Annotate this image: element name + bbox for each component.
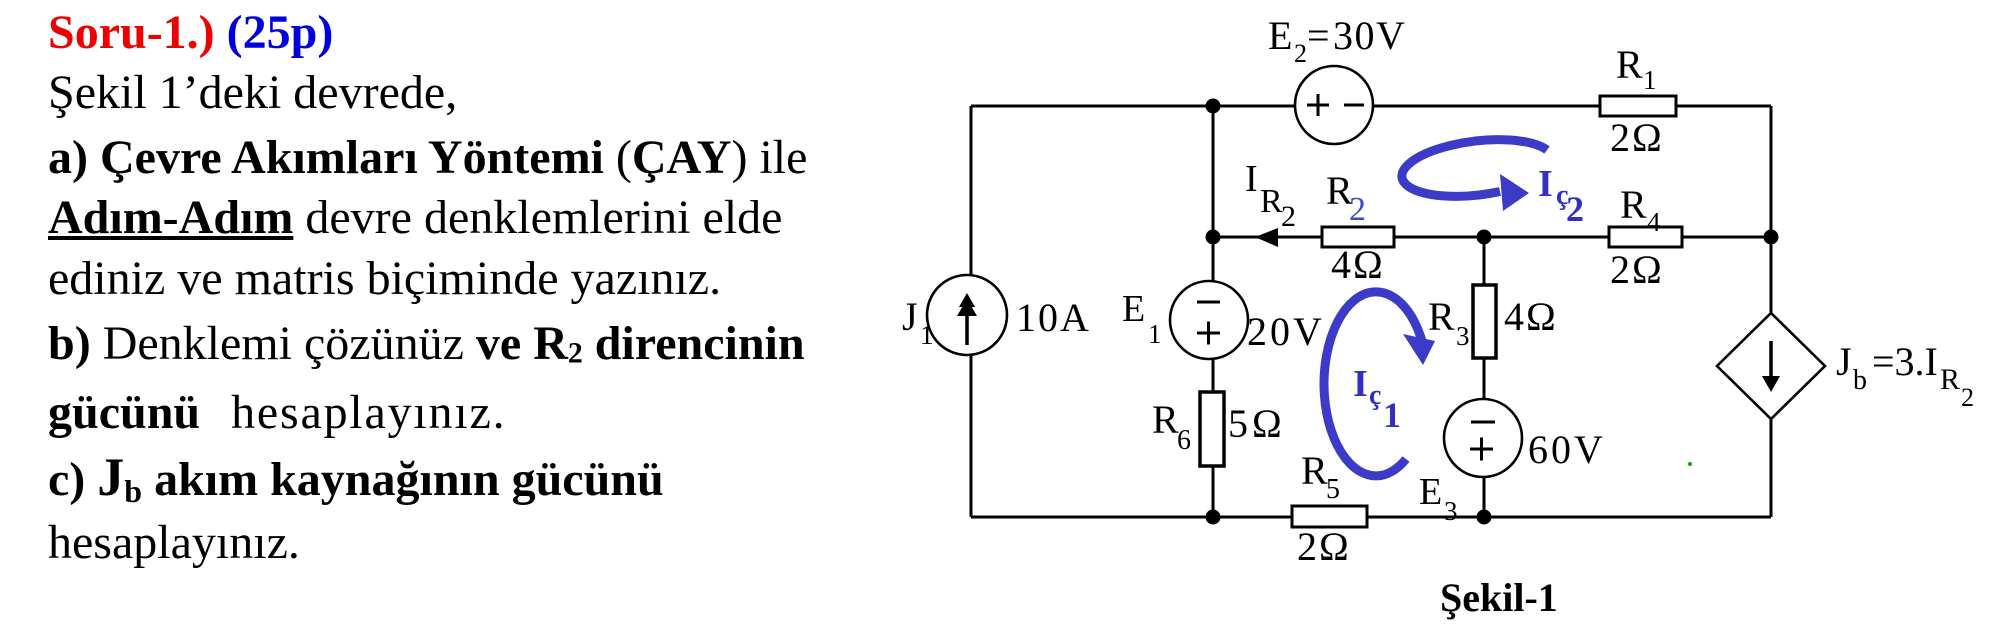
wire top (node A to node B) — [971, 105, 1771, 108]
label IR2 — [1245, 158, 1296, 233]
wire left branch — [970, 106, 973, 517]
wire from top node to middle node — [1212, 106, 1215, 237]
svg-text:Şekil-1: Şekil-1 — [1440, 575, 1558, 620]
wire bottom — [971, 516, 1771, 519]
label E1 — [1122, 288, 1162, 349]
svg-text:R: R — [1428, 294, 1455, 339]
svg-text:R: R — [1616, 42, 1643, 87]
voltage source E2 — [1295, 66, 1373, 144]
node dot top — [1206, 99, 1221, 114]
label J1 — [902, 294, 934, 350]
label E3 — [1419, 471, 1458, 526]
svg-text:30V: 30V — [1333, 13, 1406, 58]
svg-text:b: b — [1853, 365, 1867, 396]
resistor R3 — [1473, 285, 1496, 358]
node dot bottom-left — [1206, 510, 1221, 525]
voltage source E1 — [1170, 281, 1248, 359]
svg-text:=: = — [1307, 13, 1330, 58]
wire R3/E3 branch — [1483, 237, 1486, 517]
svg-text:J: J — [902, 294, 918, 339]
svg-text:I: I — [1245, 158, 1258, 200]
svg-text:I: I — [1353, 363, 1368, 405]
wire right branch — [1770, 106, 1773, 517]
svg-text:R: R — [1620, 182, 1647, 227]
svg-text:20V: 20V — [1247, 309, 1325, 354]
svg-text:3: 3 — [1456, 321, 1470, 351]
node dot middle-left — [1206, 230, 1221, 245]
label R3 — [1428, 294, 1470, 351]
node dot middle-center — [1477, 230, 1492, 245]
svg-text:4: 4 — [1647, 207, 1661, 237]
svg-text:I: I — [1538, 163, 1553, 205]
svg-text:R: R — [1152, 397, 1179, 442]
wire E1/R6 branch — [1212, 237, 1215, 517]
svg-text:1: 1 — [1148, 319, 1162, 349]
svg-text:E: E — [1419, 471, 1442, 513]
node dot bottom-center — [1477, 510, 1492, 525]
label Ic2 — [1538, 163, 1584, 229]
svg-text:3: 3 — [1444, 496, 1458, 526]
svg-text:6: 6 — [1177, 425, 1191, 456]
label R5 — [1301, 448, 1340, 505]
resistor R6 — [1200, 392, 1224, 466]
resistor R4 — [1609, 227, 1682, 247]
svg-text:E: E — [1122, 288, 1145, 330]
label R1 — [1616, 42, 1657, 95]
resistor R2 — [1322, 227, 1394, 247]
node dot middle-right — [1764, 230, 1779, 245]
svg-text:R: R — [1260, 183, 1283, 220]
problem text block — [48, 9, 333, 57]
svg-text:1: 1 — [920, 320, 934, 350]
svg-text:2Ω: 2Ω — [1610, 115, 1664, 160]
svg-text:=3.I: =3.I — [1872, 339, 1938, 384]
svg-text:4Ω: 4Ω — [1504, 294, 1558, 339]
current source J1 — [927, 275, 1007, 355]
label Ic1 — [1353, 363, 1401, 435]
stray green dot — [1688, 462, 1692, 466]
svg-text:2: 2 — [1294, 39, 1307, 68]
svg-text:2: 2 — [1349, 191, 1366, 228]
svg-text:2Ω: 2Ω — [1297, 524, 1351, 569]
svg-text:2: 2 — [1281, 200, 1296, 233]
svg-text:R: R — [1301, 448, 1328, 493]
voltage source E3 — [1444, 399, 1522, 477]
wire middle horizontal — [1213, 236, 1771, 239]
current arrow IR2 on wire — [1255, 228, 1278, 247]
label R6 — [1152, 397, 1191, 456]
svg-text:2: 2 — [1961, 383, 1974, 412]
label Jb = 3.IR2 — [1836, 339, 1974, 412]
mesh current loop Ic1 — [1324, 292, 1435, 476]
svg-text:60V: 60V — [1528, 427, 1606, 472]
mesh current loop Ic2 — [1402, 140, 1547, 211]
svg-text:5: 5 — [1326, 474, 1340, 505]
svg-text:1: 1 — [1383, 395, 1401, 435]
svg-text:ç: ç — [1369, 380, 1381, 411]
label R4 — [1620, 182, 1661, 237]
svg-text:R: R — [1940, 363, 1960, 396]
svg-text:2: 2 — [1566, 189, 1584, 229]
svg-text:E: E — [1268, 13, 1292, 58]
label E2 = 30V — [1268, 13, 1406, 68]
svg-text:5Ω: 5Ω — [1228, 401, 1286, 446]
svg-text:1: 1 — [1643, 65, 1657, 95]
resistor R5 — [1292, 506, 1367, 527]
svg-text:4Ω: 4Ω — [1331, 242, 1385, 287]
svg-text:J: J — [1836, 339, 1852, 384]
svg-text:10A: 10A — [1016, 295, 1091, 340]
label R2 — [1326, 168, 1366, 228]
resistor R1 — [1600, 96, 1676, 116]
dependent current source Jb — [1717, 313, 1825, 419]
svg-text:2Ω: 2Ω — [1610, 247, 1664, 292]
